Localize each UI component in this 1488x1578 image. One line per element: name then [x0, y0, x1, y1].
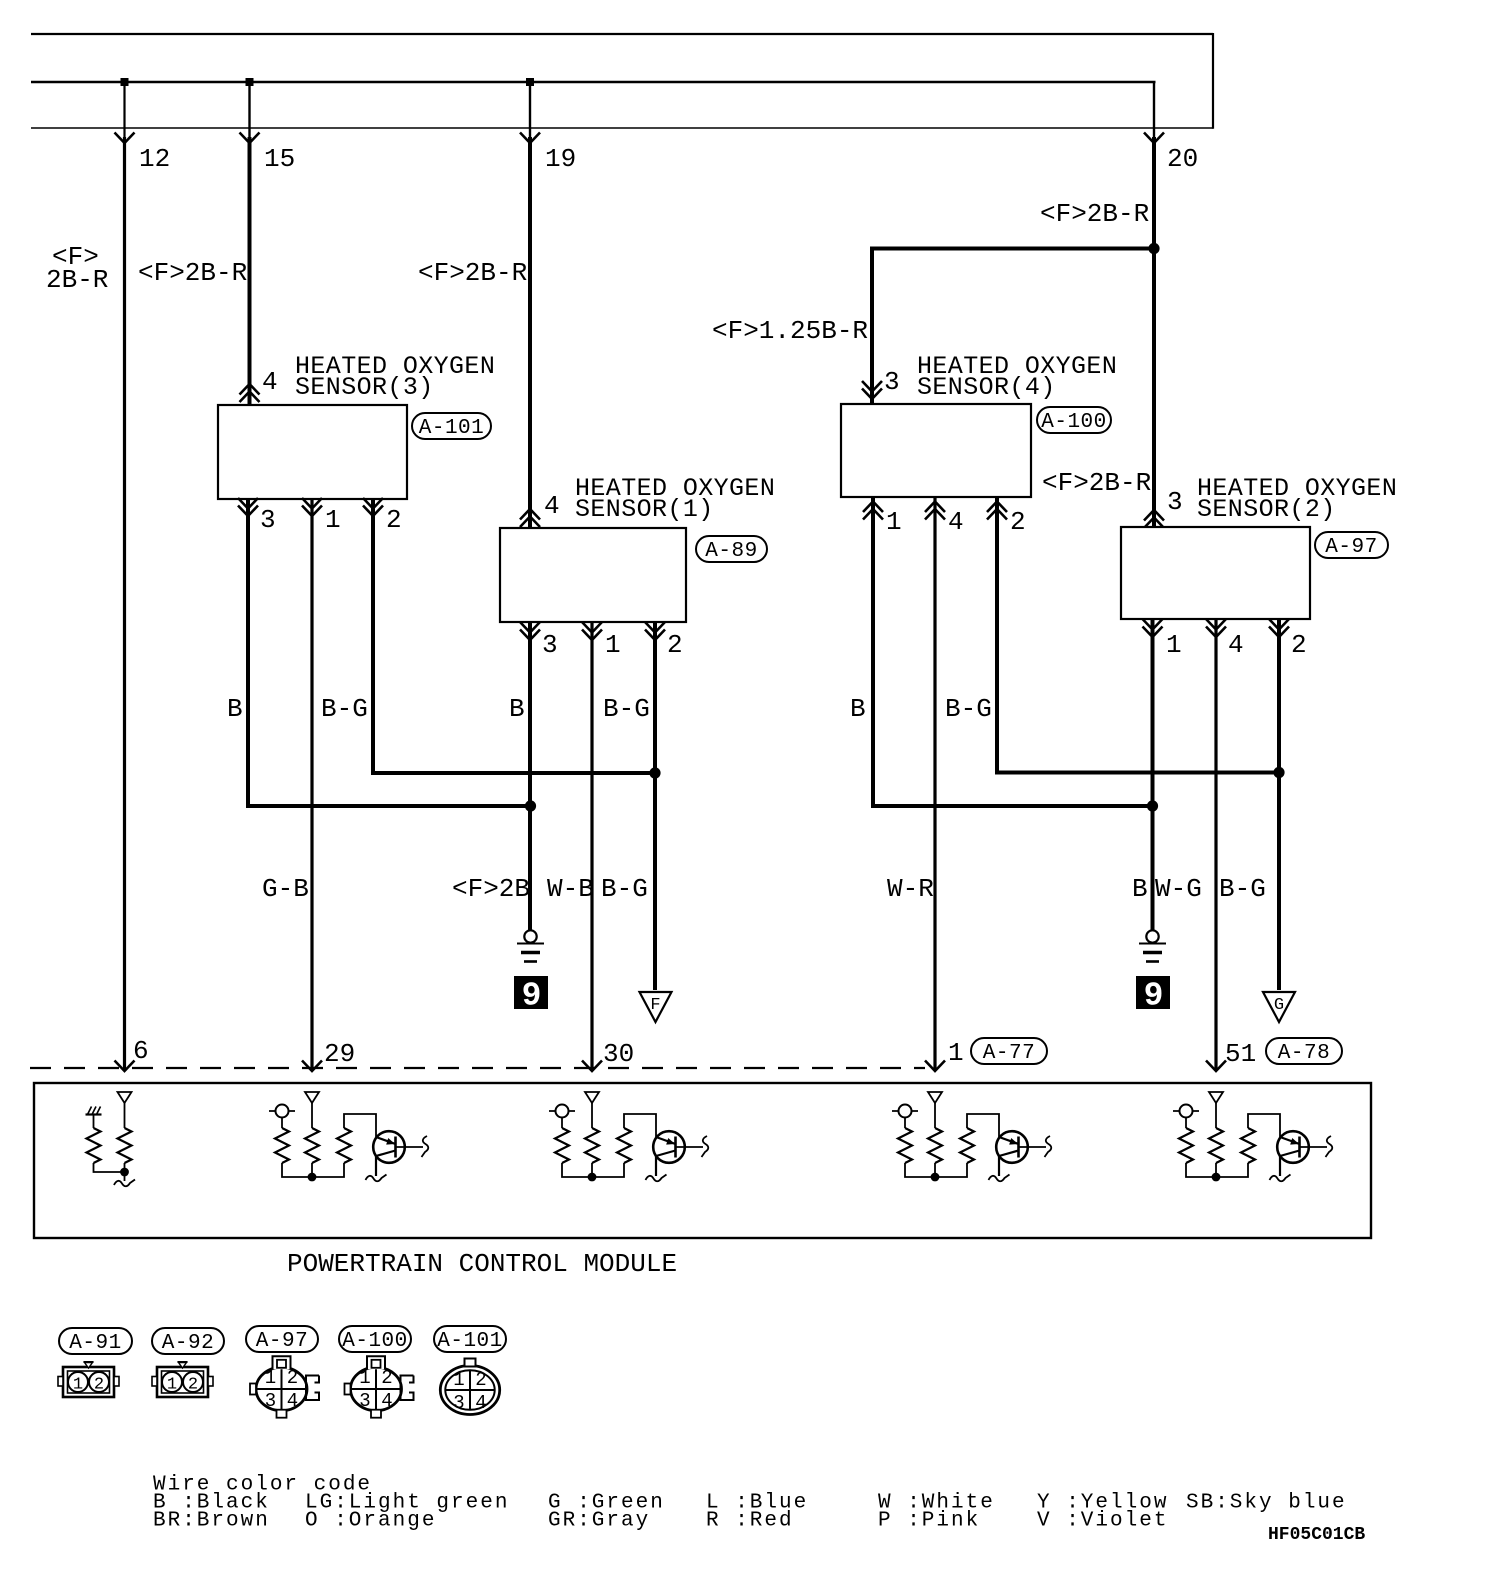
PCM pin 51: internal supply circle symbol	[1173, 1105, 1199, 1129]
svg-text:SB:Sky blue: SB:Sky blue	[1186, 1492, 1347, 1515]
connector tag A-97	[1315, 532, 1388, 559]
svg-text:2: 2	[381, 1367, 392, 1389]
svg-text:B: B	[227, 694, 243, 724]
wire sensor 1 pin 1 W-B down to PCM pin 30	[590, 622, 593, 1071]
svg-text:2: 2	[475, 1369, 486, 1391]
pin label 2 (sensor 1)	[667, 630, 683, 660]
connector tag A-77	[971, 1038, 1047, 1065]
arrowhead wire 12 below line 3	[115, 133, 135, 144]
PCM pin 1: resistor (left)	[898, 1128, 912, 1163]
pin label 1 (sensor 3)	[325, 505, 341, 535]
PCM pin 29: resistor (middle)	[305, 1128, 319, 1163]
svg-text:19: 19	[545, 144, 576, 174]
PCM pin 6: wire junction tail	[124, 1172, 126, 1181]
svg-text:4: 4	[544, 491, 560, 521]
wire bus line 1 right drop to line 3	[1212, 33, 1214, 129]
svg-text:2: 2	[386, 505, 402, 535]
value label (F) 2B-R for wire 12	[46, 242, 108, 295]
node junction on bus line 2 at wire 19	[526, 78, 534, 86]
value label (F)2B-R for wire 19	[418, 258, 527, 288]
PCM pin 1: PCM pin entry triangle	[928, 1092, 942, 1128]
svg-text:3: 3	[884, 367, 900, 397]
svg-text:1: 1	[325, 505, 341, 535]
svg-text:2: 2	[1291, 630, 1307, 660]
PCM pin 1: wire resistor bottoms to junction	[905, 1163, 967, 1177]
PCM pin 29: internal supply circle symbol	[269, 1105, 295, 1129]
svg-text:<F>2B-R: <F>2B-R	[418, 258, 527, 288]
PCM pin 51: wire resistor bottoms to junction	[1186, 1163, 1248, 1177]
pin label 29	[324, 1039, 355, 1069]
svg-text:O :Orange: O :Orange	[305, 1510, 436, 1533]
arrowhead double chevron out of sensor 3 pin 3	[238, 498, 258, 516]
connector icon A-92	[152, 1362, 213, 1397]
label HEATED OXYGEN SENSOR(2)	[1197, 474, 1397, 524]
svg-text:1: 1	[1166, 630, 1182, 660]
svg-text:B-G: B-G	[603, 694, 650, 724]
PCM pin 30: transistor	[653, 1131, 685, 1176]
arrowhead wire G-B at PCM boundary	[302, 1061, 322, 1072]
wire 19 (F)2B-R vertical to sensor 1 pin 4	[529, 82, 531, 528]
PCM pin 51: PCM pin entry triangle	[1209, 1092, 1223, 1128]
pin label 1 (sensor 1)	[605, 630, 621, 660]
pin label 1 (PCM A-77)	[948, 1038, 964, 1068]
svg-text:SENSOR(1): SENSOR(1)	[575, 495, 714, 524]
PCM pin 1: transistor base wire	[1019, 1146, 1047, 1148]
svg-text:SENSOR(2): SENSOR(2)	[1197, 495, 1336, 524]
PCM pin 30: internal supply circle symbol	[549, 1105, 575, 1129]
value label (F)2B (ground wire)	[452, 874, 530, 904]
svg-text:SENSOR(3): SENSOR(3)	[295, 373, 434, 402]
svg-text:SENSOR(4): SENSOR(4)	[917, 373, 1056, 402]
pin label 15	[264, 144, 295, 174]
pin label 3 (sensor 3)	[260, 505, 276, 535]
pin label 4 (sensor 1 top)	[544, 491, 560, 521]
arrowhead double chevron out of sensor 1 pin 3	[520, 622, 540, 640]
svg-text:15: 15	[264, 144, 295, 174]
ground triangle F	[640, 992, 672, 1022]
chassis ground symbol 9 (left)	[517, 930, 544, 961]
value label B-G (sensor 4 pin 2)	[945, 694, 992, 724]
svg-text:A-92: A-92	[162, 1332, 214, 1355]
svg-text:3: 3	[265, 1390, 276, 1412]
arrowhead double chevron into sensor 4 pin 1	[863, 502, 883, 520]
PCM pin 51: transistor	[1277, 1131, 1309, 1176]
svg-text:GR:Gray: GR:Gray	[548, 1510, 650, 1533]
PCM pin 30: resistor (right)	[617, 1128, 631, 1163]
arrowhead double chevron into sensor 4 pin 3	[862, 381, 882, 399]
arrowhead double chevron out of sensor 3 pin 1	[302, 498, 322, 516]
svg-text:3: 3	[453, 1392, 464, 1414]
PCM pin 6: wire resistor bottoms to junction	[94, 1163, 125, 1172]
node junction sensor1 pin2 / sensor3 pin2	[649, 767, 660, 778]
connector tag A-78	[1266, 1038, 1342, 1065]
PCM pin 29: transistor	[373, 1131, 405, 1176]
pin label 2 (sensor 4)	[1010, 507, 1026, 537]
svg-text:A-78: A-78	[1278, 1042, 1330, 1065]
PCM pin 29: transistor base wire	[396, 1146, 424, 1148]
PCM pin 51: wire resistor-right top rail to transistor collector	[1248, 1114, 1280, 1137]
svg-text:POWERTRAIN CONTROL MODULE: POWERTRAIN CONTROL MODULE	[287, 1249, 677, 1279]
PCM pin 29: base wire squiggle	[422, 1136, 429, 1157]
connector tag A-91	[59, 1328, 132, 1355]
arrowhead double chevron into sensor 4 pin 2	[987, 502, 1007, 520]
PCM pin 51: resistor (right)	[1241, 1128, 1255, 1163]
svg-text:1: 1	[948, 1038, 964, 1068]
value label B-G (sensor 2 pin 2)	[1219, 874, 1266, 904]
PCM pin 30: resistor (middle)	[585, 1128, 599, 1163]
svg-text:<F>1.25B-R: <F>1.25B-R	[712, 316, 868, 346]
label HEATED OXYGEN SENSOR(4)	[917, 352, 1117, 402]
pin label 12	[139, 144, 170, 174]
wire bus line 1 (top horizontal)	[31, 33, 1213, 35]
svg-text:2: 2	[287, 1367, 298, 1389]
value label B (sensor 3 pin 3)	[227, 694, 243, 724]
PCM pin 1: internal supply circle symbol	[892, 1105, 918, 1129]
PCM pin 6: PCM pin entry triangle	[118, 1092, 132, 1128]
node junction on bus line 2 at wire 15	[246, 78, 254, 86]
connector tag A-100 (bottom)	[339, 1326, 411, 1353]
svg-text:B-G: B-G	[601, 874, 648, 904]
svg-text:A-100: A-100	[1041, 411, 1107, 434]
wire sensor 1 pin 3 B down to ground	[528, 622, 532, 930]
arrowhead wire W-B at PCM boundary	[582, 1061, 602, 1072]
wire sensor 4 pin 2 B-G down and right to node	[997, 497, 1279, 773]
wire sensor 3 pin 1 G-B down to PCM pin 29	[310, 499, 313, 1071]
pin label 1 (sensor 2)	[1166, 630, 1182, 660]
svg-text:3: 3	[260, 505, 276, 535]
svg-text:A-101: A-101	[419, 417, 485, 440]
PCM boundary dashed line	[30, 1067, 925, 1069]
wire sensor 3 pin 2 B-G down and right to node	[373, 499, 655, 773]
svg-text:4: 4	[381, 1390, 392, 1412]
svg-text:P :Pink: P :Pink	[878, 1510, 980, 1533]
svg-text:B: B	[509, 694, 525, 724]
wire 15 (F)2B-R vertical to sensor 3 pin 4	[248, 82, 250, 405]
svg-text:2B-R: 2B-R	[46, 265, 108, 295]
svg-text:R :Red: R :Red	[706, 1510, 794, 1533]
arrowhead wire 12 at PCM boundary	[115, 1061, 135, 1072]
arrowhead wire 20 below line 3	[1144, 133, 1164, 144]
connector icon A-101	[440, 1359, 499, 1415]
svg-text:<F>2B: <F>2B	[452, 874, 530, 904]
value label (F)2B-R for wire 20 lower	[1042, 468, 1151, 498]
PCM pin 30: transistor emitter squiggle	[646, 1175, 667, 1182]
pin label 19	[545, 144, 576, 174]
ground ref box 9 (left)	[514, 976, 548, 1015]
svg-text:1: 1	[453, 1369, 464, 1391]
svg-text:B: B	[850, 694, 866, 724]
PCM pin 51: resistor (left)	[1179, 1128, 1193, 1163]
chassis ground symbol 9 (right)	[1139, 930, 1166, 961]
arrowhead wire 19 below line 3	[520, 133, 540, 144]
PCM pin 1: resistor (right)	[960, 1128, 974, 1163]
PCM pin 6: junction node	[120, 1168, 129, 1177]
value label G-B (sensor 3 pin 1)	[262, 874, 309, 904]
PCM pin 1: transistor emitter squiggle	[989, 1175, 1010, 1182]
pin label 6	[133, 1036, 149, 1066]
connector icon A-100	[345, 1356, 414, 1417]
connector tag A-89	[696, 536, 767, 563]
connector tag A-100	[1037, 407, 1111, 434]
svg-text:<F>2B-R: <F>2B-R	[1040, 199, 1149, 229]
svg-text:1: 1	[605, 630, 621, 660]
PCM pin 29: resistor (left)	[275, 1128, 289, 1163]
label POWERTRAIN CONTROL MODULE	[287, 1249, 677, 1279]
PCM pin 51: resistor (middle)	[1209, 1128, 1223, 1163]
svg-text:A-97: A-97	[1325, 536, 1377, 559]
PCM pin 6: resistor (left, pin 6 pull network)	[87, 1128, 101, 1163]
wire sensor 4 pin 1 B down and right to node	[873, 497, 1153, 806]
svg-text:G-B: G-B	[262, 874, 309, 904]
value label W-G (sensor 2 pin 4)	[1155, 874, 1202, 904]
svg-text:1: 1	[359, 1367, 370, 1389]
svg-text:4: 4	[1228, 630, 1244, 660]
svg-text:B-G: B-G	[1219, 874, 1266, 904]
svg-text:W-B: W-B	[547, 874, 594, 904]
PCM pin 29: PCM pin entry triangle	[305, 1092, 319, 1128]
label HEATED OXYGEN SENSOR(3)	[295, 352, 495, 402]
heated oxygen sensor (4) box A-100	[841, 404, 1031, 497]
wire sensor 2 pin 1 B down to ground	[1151, 619, 1155, 930]
svg-text:A-97: A-97	[256, 1330, 308, 1353]
PCM pin 6: resistor (right, pin 6 pull network)	[118, 1128, 132, 1163]
wire bus line 2 (horizontal, feeds sensor heaters)	[31, 81, 1156, 84]
value label W-R (sensor 4 pin 4)	[887, 874, 934, 904]
PCM pin 30: wire resistor bottoms to junction	[562, 1163, 624, 1177]
PCM pin 51: transistor emitter squiggle	[1270, 1175, 1291, 1182]
svg-text:1: 1	[886, 507, 902, 537]
pin label 3 (sensor 4 top)	[884, 367, 900, 397]
svg-text:2: 2	[667, 630, 683, 660]
connector icon A-91	[58, 1362, 119, 1397]
svg-text:A-77: A-77	[983, 1042, 1035, 1065]
svg-text:B-G: B-G	[945, 694, 992, 724]
pin label 51	[1225, 1039, 1256, 1069]
value label B (sensor 4 pin 1)	[850, 694, 866, 724]
svg-text:F: F	[650, 996, 660, 1015]
arrowhead double chevron out of sensor 3 pin 2	[363, 498, 383, 516]
svg-text:9: 9	[1144, 978, 1164, 1015]
svg-text:4: 4	[475, 1392, 486, 1414]
svg-text:HF05C01CB: HF05C01CB	[1268, 1525, 1365, 1545]
pin label 4 (sensor 3 top)	[262, 367, 278, 397]
svg-text:B-G: B-G	[321, 694, 368, 724]
svg-text:G: G	[1274, 996, 1284, 1015]
arrowhead double chevron out of sensor 2 pin 4	[1206, 619, 1226, 637]
arrowhead double chevron out of sensor 1 pin 2	[645, 622, 665, 640]
PCM pin 1: junction node	[931, 1173, 940, 1182]
PCM pin 6: squiggle continuation mark	[114, 1180, 135, 1187]
arrowhead wire 15 below line 3	[240, 133, 260, 144]
svg-text:A-100: A-100	[342, 1330, 408, 1353]
svg-text:20: 20	[1167, 144, 1198, 174]
arrowhead double chevron into sensor 2 pin 3	[1144, 510, 1164, 528]
powertrain control module box	[34, 1083, 1371, 1238]
PCM pin 29: junction node	[308, 1173, 317, 1182]
svg-text:W-G: W-G	[1155, 874, 1202, 904]
value label B (sensor 2 pin 1)	[1132, 874, 1148, 904]
svg-text:3: 3	[1167, 487, 1183, 517]
svg-text:B: B	[1132, 874, 1148, 904]
connector tag A-97 (bottom)	[246, 1326, 318, 1353]
svg-text:<F>2B-R: <F>2B-R	[138, 258, 247, 288]
pin label 30	[603, 1039, 634, 1069]
value label (F)1.25B-R	[712, 316, 868, 346]
PCM pin 6: internal-connection hatch mark	[86, 1107, 102, 1129]
value label (F)2B-R for wire 15	[138, 258, 247, 288]
svg-text:30: 30	[603, 1039, 634, 1069]
wire sensor 3 pin 3 B down and right to node	[248, 499, 531, 806]
svg-text:<F>2B-R: <F>2B-R	[1042, 468, 1151, 498]
pin label 4 (sensor 4)	[948, 507, 964, 537]
wire sensor 1 pin 2 B-G down to ground F	[653, 622, 657, 990]
svg-text:12: 12	[139, 144, 170, 174]
svg-text:1: 1	[265, 1367, 276, 1389]
svg-text:3: 3	[359, 1390, 370, 1412]
arrowhead double chevron out of sensor 2 pin 1	[1143, 619, 1163, 637]
arrowhead double chevron into sensor 4 pin 4	[925, 502, 945, 520]
arrowhead double chevron into sensor 1 pin 4	[520, 509, 540, 527]
value label (F)2B-R for wire 20 upper	[1040, 199, 1149, 229]
svg-text:3: 3	[542, 630, 558, 660]
arrowhead double chevron out of sensor 1 pin 1	[582, 622, 602, 640]
ground triangle G	[1263, 992, 1295, 1022]
node junction on bus line 2 at wire 12	[121, 78, 129, 86]
svg-text:A-91: A-91	[69, 1332, 121, 1355]
ground ref box 9 (right)	[1136, 976, 1170, 1015]
svg-text:6: 6	[133, 1036, 149, 1066]
PCM pin 51: junction node	[1212, 1173, 1221, 1182]
svg-text:1: 1	[167, 1376, 177, 1395]
PCM pin 1: resistor (middle)	[928, 1128, 942, 1163]
arrowhead double chevron into sensor 3 pin 4	[240, 384, 260, 402]
svg-text:A-89: A-89	[705, 540, 757, 563]
PCM pin 30: resistor (left)	[555, 1128, 569, 1163]
pin label 3 (sensor 1)	[542, 630, 558, 660]
pin label 2 (sensor 3)	[386, 505, 402, 535]
pin label 2 (sensor 2)	[1291, 630, 1307, 660]
svg-text:4: 4	[948, 507, 964, 537]
svg-text:1: 1	[73, 1376, 83, 1395]
svg-text:V :Violet: V :Violet	[1037, 1510, 1168, 1533]
PCM pin 1: transistor	[996, 1131, 1028, 1176]
svg-text:9: 9	[522, 978, 542, 1015]
connector tag A-101 (bottom)	[434, 1326, 506, 1353]
node junction sensor2 pin1 / sensor4 pin1	[1147, 800, 1158, 811]
wire bus line 3 (thin horizontal)	[31, 127, 1213, 129]
connector tag A-92	[152, 1328, 224, 1355]
svg-text:A-101: A-101	[437, 1330, 503, 1353]
PCM pin 30: PCM pin entry triangle	[585, 1092, 599, 1128]
wire 20 (F)2B-R vertical from bus line 2 to sensor 2 pin 3	[1153, 82, 1155, 527]
svg-text:2: 2	[1010, 507, 1026, 537]
PCM pin 51: transistor base wire	[1300, 1146, 1328, 1148]
heated oxygen sensor (2) box A-97	[1121, 527, 1310, 619]
PCM pin 1: base wire squiggle	[1045, 1136, 1052, 1157]
arrowhead wire W-G at PCM boundary	[1206, 1061, 1226, 1072]
svg-text:4: 4	[287, 1390, 298, 1412]
pin label 1 (sensor 4)	[886, 507, 902, 537]
PCM pin 1: wire resistor-right top rail to transistor collector	[967, 1114, 999, 1137]
PCM pin 30: base wire squiggle	[702, 1136, 709, 1157]
connector tag A-101	[412, 413, 491, 440]
PCM pin 29: transistor emitter squiggle	[366, 1175, 387, 1182]
value label B-G lower (sensor 1 pin 2)	[601, 874, 648, 904]
node junction sensor1 pin3 / sensor3 pin3	[525, 800, 536, 811]
wire branch (F)1.25B-R from J1 to sensor 4 pin 3	[872, 249, 1154, 405]
pin label 3 (sensor 2 top)	[1167, 487, 1183, 517]
drawing number HF05C01CB	[1268, 1525, 1365, 1545]
arrowhead double chevron out of sensor 2 pin 2	[1269, 619, 1289, 637]
PCM pin 30: wire resistor-right top rail to transistor collector	[624, 1114, 656, 1137]
svg-text:4: 4	[262, 367, 278, 397]
value label W-B (sensor 1 pin 1)	[547, 874, 594, 904]
node junction J1 on wire 20	[1148, 243, 1159, 254]
svg-text:BR:Brown: BR:Brown	[153, 1510, 270, 1533]
wire sensor 4 pin 4 W-R down to PCM pin 1	[933, 497, 936, 1071]
arrowhead wire W-R at PCM boundary	[925, 1061, 945, 1072]
PCM pin 29: resistor (right)	[337, 1128, 351, 1163]
wire sensor 2 pin 4 W-G down to PCM pin 51	[1214, 619, 1217, 1071]
PCM pin 29: wire resistor-right top rail to transistor collector	[344, 1114, 376, 1137]
svg-text:2: 2	[188, 1376, 198, 1395]
pin label 4 (sensor 2)	[1228, 630, 1244, 660]
wire sensor 2 pin 2 B-G down to ground G	[1277, 619, 1281, 990]
PCM pin 30: junction node	[588, 1173, 597, 1182]
svg-text:51: 51	[1225, 1039, 1256, 1069]
value label B-G (sensor 1 pin 2)	[603, 694, 650, 724]
heated oxygen sensor (1) box A-89	[500, 528, 686, 622]
PCM pin 51: base wire squiggle	[1326, 1136, 1333, 1157]
svg-text:W-R: W-R	[887, 874, 934, 904]
heated oxygen sensor (3) box A-101	[218, 405, 407, 499]
wire color code legend	[153, 1474, 1347, 1533]
value label B-G (sensor 3 pin 2)	[321, 694, 368, 724]
pin label 20	[1167, 144, 1198, 174]
node junction sensor2 pin2 / sensor4 pin2	[1273, 767, 1284, 778]
wire 12 (F)2B-R vertical to PCM pin 6	[123, 82, 125, 1071]
label HEATED OXYGEN SENSOR(1)	[575, 474, 775, 524]
PCM pin 29: wire resistor bottoms to junction	[282, 1163, 344, 1177]
value label B (sensor 1 pin 3)	[509, 694, 525, 724]
connector icon A-97	[250, 1356, 319, 1417]
PCM pin 30: transistor base wire	[676, 1146, 704, 1148]
svg-text:2: 2	[94, 1376, 104, 1395]
svg-text:29: 29	[324, 1039, 355, 1069]
